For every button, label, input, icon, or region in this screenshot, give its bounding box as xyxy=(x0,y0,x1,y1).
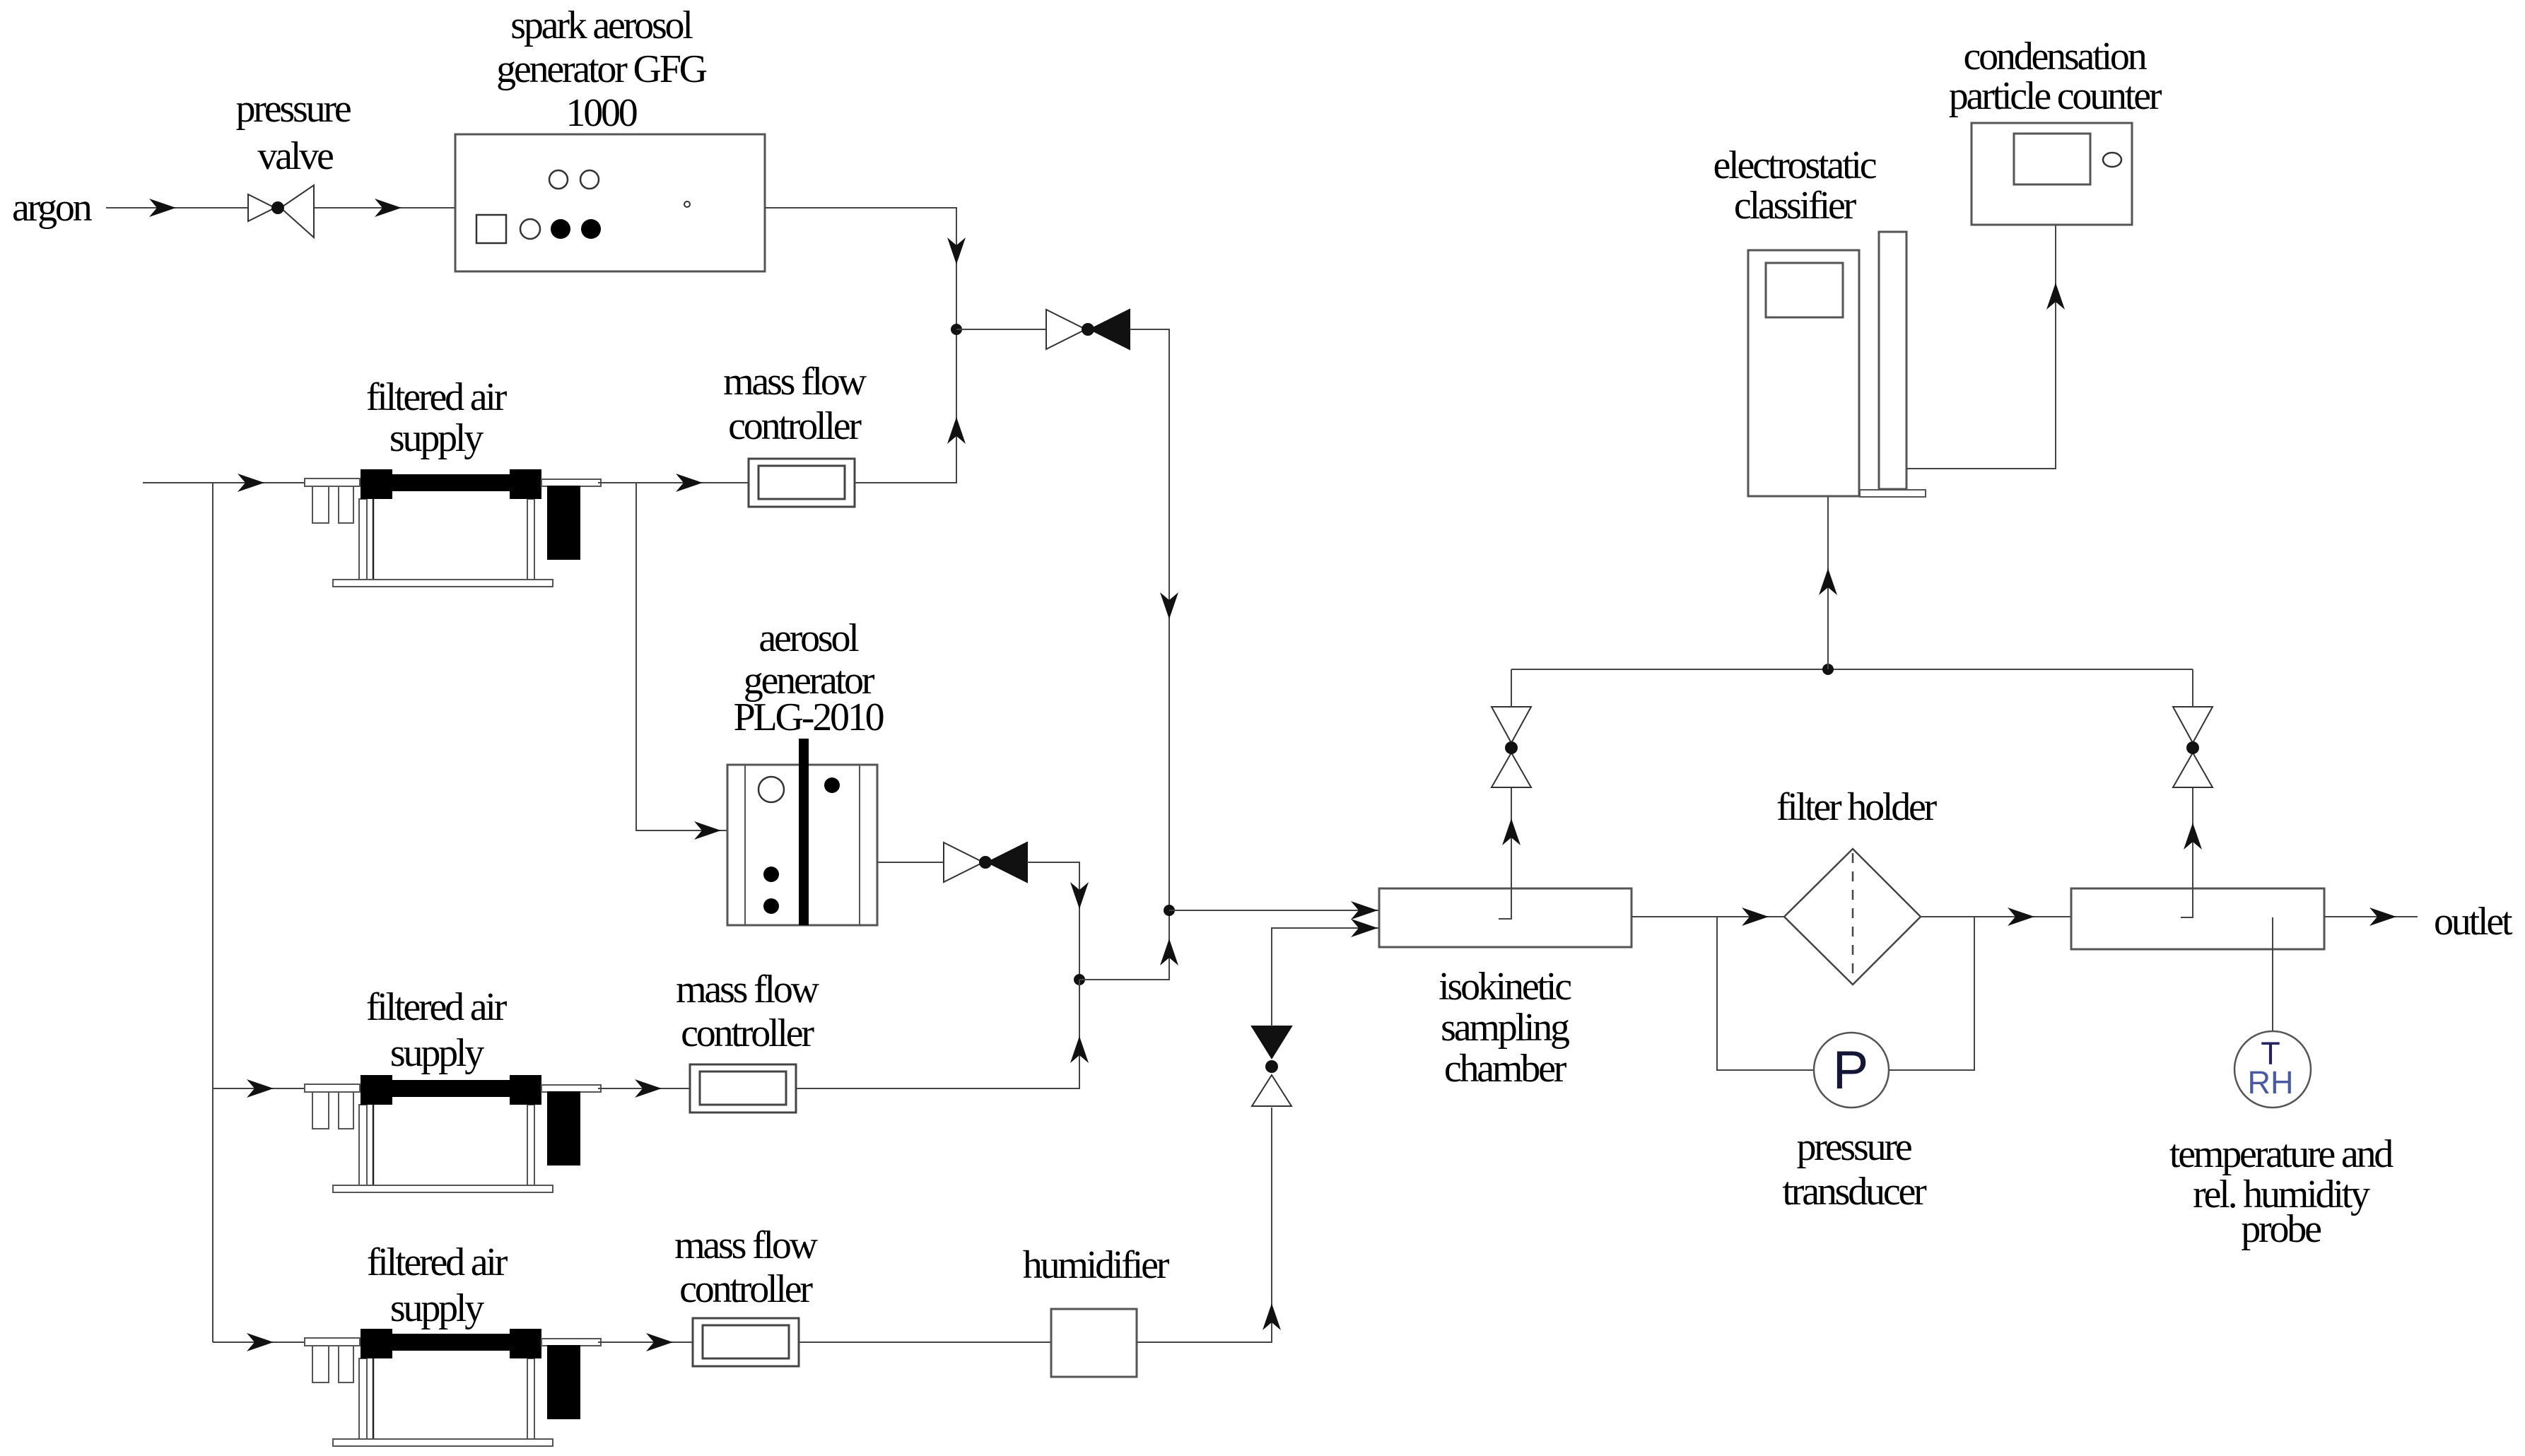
svg-text:transducer: transducer xyxy=(1782,1170,1927,1214)
svg-text:mass flow: mass flow xyxy=(676,968,820,1011)
svg-text:controller: controller xyxy=(728,404,862,448)
pressure transducer P xyxy=(1814,1033,1889,1108)
mass flow controller label 3 xyxy=(674,1223,819,1311)
wire J2 to junction J3 xyxy=(1079,910,1178,980)
svg-text:sampling: sampling xyxy=(1441,1006,1569,1050)
valve V4 xyxy=(1492,707,1531,787)
temperature and rel humidity probe circle xyxy=(2234,1031,2311,1108)
wire bypass to pressure transducer xyxy=(1717,917,1814,1070)
wire outlet xyxy=(2324,908,2418,926)
mass flow controller 3 xyxy=(693,1318,799,1366)
pressure valve xyxy=(248,185,314,237)
wire MFC2 output to junction J2 xyxy=(797,980,1089,1088)
wire branch to PLG xyxy=(636,483,729,840)
wire to electrostatic classifier xyxy=(1819,496,1837,669)
svg-text:pressure: pressure xyxy=(1797,1125,1911,1169)
svg-text:probe: probe xyxy=(2241,1207,2321,1251)
temperature and rel humidity probe label xyxy=(2169,1132,2394,1251)
isokinetic sampling chamber label xyxy=(1439,965,1571,1091)
svg-text:RH: RH xyxy=(2248,1064,2294,1100)
junction J3 xyxy=(1164,905,1175,916)
svg-text:controller: controller xyxy=(679,1267,813,1311)
svg-text:generator GFG: generator GFG xyxy=(496,47,707,91)
wire PLG output xyxy=(877,862,944,863)
wire V3 to isokinetic chamber xyxy=(1272,919,1379,1026)
svg-text:electrostatic: electrostatic xyxy=(1713,143,1877,187)
wire MFC3 to humidifier xyxy=(799,1341,1051,1343)
svg-text:isokinetic: isokinetic xyxy=(1439,965,1571,1009)
wire sampling probe 2 xyxy=(2181,787,2202,917)
filter holder xyxy=(1784,849,1921,985)
wire humidifier output up xyxy=(1137,1108,1281,1342)
svg-text:supply: supply xyxy=(389,416,484,460)
svg-text:mass flow: mass flow xyxy=(674,1223,819,1267)
node outlet label xyxy=(2434,900,2513,944)
valve V1 xyxy=(1046,310,1130,349)
filtered air supply unit 1 xyxy=(305,469,601,587)
svg-text:temperature and: temperature and xyxy=(2169,1132,2394,1176)
wire line1 left xyxy=(143,474,306,492)
valve V3 xyxy=(1252,1026,1291,1106)
wire MFC1 output to junction J1 xyxy=(855,329,966,483)
svg-text:classifier: classifier xyxy=(1734,184,1857,228)
svg-text:1000: 1000 xyxy=(566,91,636,135)
wire TRH probe down xyxy=(2272,917,2273,1031)
wire filter holder to TRH chamber xyxy=(1921,908,2071,926)
valve V2 xyxy=(944,843,1027,882)
TRH chamber box xyxy=(2071,888,2324,949)
svg-text:filtered air: filtered air xyxy=(366,985,508,1029)
wire classifier to CPC xyxy=(1906,225,2065,469)
wire line3 left xyxy=(213,1333,306,1351)
pressure transducer label xyxy=(1782,1125,1927,1214)
electrostatic classifier label xyxy=(1713,143,1877,228)
wire V1 to junction J3 xyxy=(1130,329,1178,910)
filtered air supply unit 2 xyxy=(305,1075,601,1192)
svg-text:mass flow: mass flow xyxy=(723,360,867,404)
aerosol generator PLG-2010 label xyxy=(734,616,884,739)
wire V2 to junction J2 xyxy=(1027,862,1089,980)
svg-text:condensation: condensation xyxy=(1963,35,2147,78)
mass flow controller label 2 xyxy=(676,968,820,1055)
svg-text:supply: supply xyxy=(390,1286,484,1330)
filtered air supply label 1 xyxy=(366,375,508,460)
svg-text:P: P xyxy=(1833,1040,1869,1100)
svg-text:chamber: chamber xyxy=(1444,1047,1567,1091)
condensation particle counter label xyxy=(1949,35,2162,118)
wire line3 right xyxy=(598,1333,693,1351)
wire argon inlet xyxy=(106,199,455,217)
condensation particle counter box xyxy=(1972,123,2132,225)
humidifier label xyxy=(1023,1243,1170,1287)
spark aerosol generator GFG 1000 box xyxy=(455,134,765,271)
wire line2 left xyxy=(213,1079,306,1098)
svg-text:filtered air: filtered air xyxy=(366,375,508,419)
mass flow controller label 1 xyxy=(723,360,867,448)
wire V4 to top rail xyxy=(1511,669,1512,707)
aerosol generator PLG-2010 box xyxy=(727,739,877,925)
humidifier box xyxy=(1051,1309,1137,1377)
filtered air supply label 2 xyxy=(366,985,508,1075)
wire pressure transducer return xyxy=(1889,917,1974,1070)
wire chamber output to filter holder xyxy=(1631,908,1784,926)
electrostatic classifier xyxy=(1748,232,1926,497)
svg-text:PLG-2010: PLG-2010 xyxy=(734,695,884,739)
isokinetic sampling chamber box xyxy=(1379,888,1631,947)
mass flow controller 1 xyxy=(749,459,855,507)
spark aerosol generator GFG 1000 label xyxy=(496,4,707,135)
svg-text:aerosol: aerosol xyxy=(758,616,859,660)
filtered air supply unit 3 xyxy=(305,1329,601,1446)
wire left rail xyxy=(212,483,213,1342)
svg-text:valve: valve xyxy=(257,134,333,178)
junction J4 xyxy=(1822,664,1834,675)
mass flow controller 2 xyxy=(690,1064,796,1112)
wire top rail xyxy=(1511,669,2193,670)
node argon label xyxy=(12,186,93,230)
wire J1 to valve V1 xyxy=(956,329,1046,330)
wire line2 right xyxy=(598,1079,690,1098)
wire J3 to isokinetic chamber xyxy=(1169,901,1379,920)
svg-text:filtered air: filtered air xyxy=(367,1240,508,1284)
valve V5 xyxy=(2173,707,2213,787)
filtered air supply label 3 xyxy=(367,1240,508,1330)
svg-text:filter holder: filter holder xyxy=(1776,785,1938,829)
junction J2 xyxy=(1074,974,1085,985)
svg-text:pressure: pressure xyxy=(236,87,351,131)
svg-text:argon: argon xyxy=(12,186,93,230)
svg-text:particle counter: particle counter xyxy=(1949,74,2162,118)
svg-text:spark aerosol: spark aerosol xyxy=(510,4,693,47)
junction J1 xyxy=(951,324,962,335)
wire GFG output to junction J1 xyxy=(765,208,966,329)
svg-text:controller: controller xyxy=(681,1011,814,1055)
svg-text:humidifier: humidifier xyxy=(1023,1243,1170,1287)
pressure valve label xyxy=(236,87,351,178)
filter holder label xyxy=(1776,785,1938,829)
wire sampling probe 1 xyxy=(1499,787,1521,919)
svg-text:outlet: outlet xyxy=(2434,900,2513,944)
wire line1 right xyxy=(598,474,749,492)
wire V5 to top rail xyxy=(2192,669,2193,707)
svg-text:supply: supply xyxy=(390,1031,484,1075)
